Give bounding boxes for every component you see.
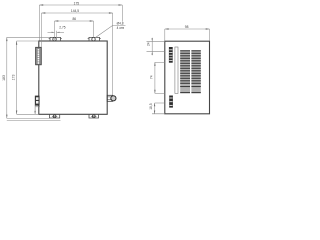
dim 144,5 line xyxy=(42,13,113,95)
dim 183 (left outer) xyxy=(7,37,50,118)
top tab right hole xyxy=(92,38,95,41)
dim 175 arrows xyxy=(39,4,122,5)
top mounting tab left xyxy=(49,37,62,41)
side top terminal block xyxy=(169,47,173,63)
top tab left hole Ø4,8 xyxy=(53,38,56,41)
svg-text:183: 183 xyxy=(2,75,6,81)
dim 86 line xyxy=(55,21,94,41)
leader Ø4,8 / 4 отв xyxy=(95,25,126,38)
svg-text:144,5: 144,5 xyxy=(71,9,79,13)
louver vent column 2 xyxy=(191,50,200,93)
top mounting tab right xyxy=(88,37,101,41)
right-edge connector with round cap xyxy=(107,95,116,101)
dim 18,5 (side left) xyxy=(152,103,165,114)
dim 24 arrows xyxy=(152,38,153,54)
dim 175 line xyxy=(39,5,122,41)
dim 98 arrows xyxy=(165,28,210,29)
svg-text:74: 74 xyxy=(149,75,153,79)
bottom tab left hole xyxy=(53,115,56,118)
dim 74 (side left) xyxy=(155,62,165,93)
left-edge hatched connector block xyxy=(36,47,42,65)
svg-text:98: 98 xyxy=(185,25,189,29)
svg-text:18,5: 18,5 xyxy=(149,103,153,110)
left-edge lower dark socket block xyxy=(35,96,39,106)
side bottom terminal block xyxy=(169,96,173,108)
svg-text:173: 173 xyxy=(12,75,16,81)
bottom mounting tab right xyxy=(89,114,99,118)
leader under socket block xyxy=(34,105,36,114)
bottom mounting tab left xyxy=(49,114,59,118)
bottom lip line behind left tab xyxy=(7,119,61,121)
dim 173 arrows xyxy=(16,41,17,114)
bottom tab left hole centermarks xyxy=(52,115,57,117)
enclosure body outline xyxy=(39,41,107,114)
dim 2,75 xyxy=(48,31,65,39)
side vertical slot channel xyxy=(175,47,178,93)
svg-text:86: 86 xyxy=(72,17,76,21)
dim 86 arrows xyxy=(55,20,94,21)
dim 2,75 arrows xyxy=(52,32,60,33)
dim 98 line xyxy=(165,29,210,41)
svg-text:4 отв: 4 отв xyxy=(117,26,125,30)
bottom tab right hole xyxy=(92,115,95,118)
dim 144,5 arrows xyxy=(42,12,113,13)
svg-text:175: 175 xyxy=(74,1,80,5)
louver vent column 1 xyxy=(180,50,190,93)
bottom tab right hole centermarks xyxy=(91,115,96,117)
dim 183 arrows xyxy=(6,37,7,118)
svg-text:2,75: 2,75 xyxy=(59,26,65,30)
svg-text:Ø4,8: Ø4,8 xyxy=(117,22,124,26)
dim 74 arrows xyxy=(154,62,155,93)
dim 173 (left inner) xyxy=(17,41,39,114)
dim 18,5 arrows xyxy=(154,103,155,114)
side view outline xyxy=(165,41,210,114)
svg-text:24: 24 xyxy=(147,42,151,46)
dim 24 (side left) xyxy=(147,38,165,56)
